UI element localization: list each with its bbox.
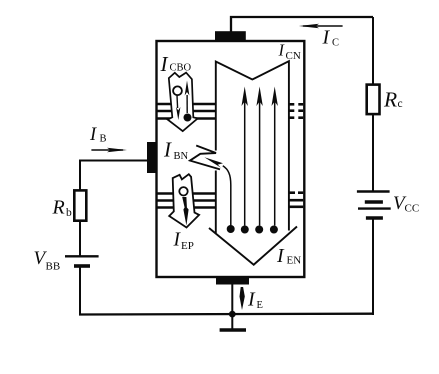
battery VBB — [65, 256, 99, 266]
electron flow funnel (IEN to ICN) — [209, 61, 297, 265]
svg-text:E: E — [257, 300, 263, 311]
wire left upper (base corner down to Rb) — [79, 161, 81, 193]
collector junction depletion lines (left of funnel) — [158, 104, 216, 119]
label Rb — [52, 197, 73, 220]
wire base (left horizontal into base contact) — [79, 160, 148, 162]
battery VCC — [357, 192, 391, 219]
svg-text:EN: EN — [287, 255, 302, 267]
svg-text:R: R — [52, 197, 65, 219]
IBN break zigzag (arrow piercing funnel wall) — [190, 146, 220, 170]
svg-text:c: c — [398, 98, 403, 110]
label IE — [247, 289, 263, 312]
label IEN — [276, 245, 301, 267]
label VBB — [34, 248, 61, 273]
wire collector top (from collector contact up and right) — [231, 17, 373, 32]
wire left lower (VBB to bottom rail) — [79, 268, 81, 316]
svg-text:EP: EP — [181, 240, 194, 252]
svg-text:I: I — [322, 27, 331, 49]
ground — [220, 314, 246, 330]
svg-text:b: b — [66, 207, 72, 219]
resistor Rc — [367, 85, 380, 115]
collector contact — [215, 31, 246, 41]
current arrow IC — [299, 24, 343, 29]
ICBO blob (hole+electron drift arrow across collector junction) — [168, 73, 198, 132]
transistor body — [157, 41, 305, 277]
svg-text:C: C — [332, 38, 339, 49]
label ICN — [278, 41, 301, 63]
svg-text:CBO: CBO — [170, 63, 192, 74]
base contact — [147, 142, 157, 173]
label Rc — [383, 88, 403, 112]
label VCC — [393, 193, 419, 215]
node E junction dot — [229, 311, 236, 318]
label IC — [322, 27, 340, 49]
wire right lower (VCC to bottom rail) — [372, 220, 374, 316]
wire bottom rail — [79, 313, 374, 316]
svg-text:CN: CN — [286, 50, 301, 62]
label IBN — [163, 138, 189, 163]
emitter junction depletion lines (left of funnel) — [158, 194, 216, 208]
resistor Rb — [74, 190, 86, 220]
emitter contact — [216, 277, 249, 285]
svg-text:I: I — [276, 245, 285, 267]
svg-text:I: I — [89, 125, 97, 145]
IEP blob (hole injection arrow across emitter junction) — [169, 174, 199, 227]
wire right middle (Rc to VCC) — [372, 114, 374, 191]
current arrow IE — [240, 287, 245, 310]
emitter junction depletion dashes (right of funnel) — [290, 193, 304, 207]
label IEP — [173, 230, 194, 253]
svg-text:CC: CC — [405, 203, 420, 215]
label ICBO — [160, 52, 192, 76]
wire right upper (top wire down to Rc) — [372, 17, 374, 87]
wire emitter (contact down to ground node) — [231, 284, 233, 314]
svg-text:B: B — [100, 134, 107, 145]
svg-text:I: I — [160, 52, 169, 76]
electron flow arrows inside funnel — [241, 87, 278, 234]
collector junction depletion dashes (right of funnel) — [290, 104, 304, 117]
svg-text:I: I — [163, 138, 172, 162]
svg-text:BN: BN — [174, 151, 189, 162]
wire left middle (Rb to VBB) — [79, 220, 81, 256]
svg-text:I: I — [247, 289, 256, 311]
svg-text:BB: BB — [46, 261, 61, 273]
svg-text:R: R — [383, 88, 397, 112]
IBN recombination path (curved line from dot 1) — [204, 157, 234, 233]
label IB — [89, 125, 107, 145]
current arrow IB — [91, 148, 127, 153]
